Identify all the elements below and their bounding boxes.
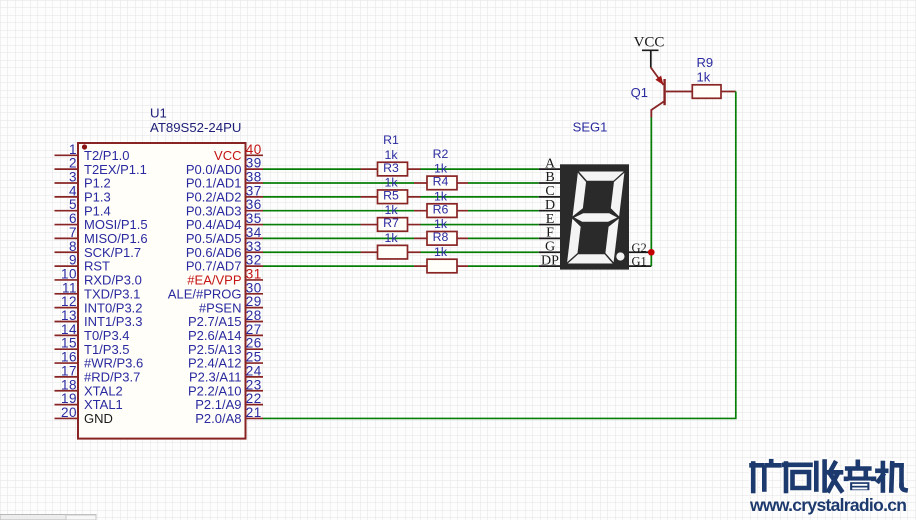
svg-text:ALE/#PROG: ALE/#PROG	[168, 286, 242, 301]
svg-text:1k: 1k	[385, 203, 399, 217]
svg-text:1k: 1k	[434, 245, 448, 259]
svg-text:19: 19	[61, 391, 77, 406]
svg-text:XTAL2: XTAL2	[84, 383, 123, 398]
svg-text:22: 22	[246, 391, 262, 406]
svg-text:XTAL1: XTAL1	[84, 397, 123, 412]
svg-text:14: 14	[61, 322, 77, 337]
svg-text:23: 23	[246, 377, 262, 392]
svg-text:1k: 1k	[434, 217, 448, 231]
svg-text:32: 32	[246, 253, 262, 268]
svg-text:TXD/P3.1: TXD/P3.1	[84, 286, 140, 301]
svg-text:17: 17	[61, 363, 77, 378]
svg-text:4: 4	[69, 183, 77, 198]
svg-text:P2.7/A15: P2.7/A15	[188, 314, 242, 329]
svg-text:1k: 1k	[385, 231, 399, 245]
svg-text:1k: 1k	[434, 189, 448, 203]
svg-text:P2.2/A10: P2.2/A10	[188, 383, 242, 398]
svg-text:P2.1/A9: P2.1/A9	[195, 397, 241, 412]
svg-text:U1: U1	[150, 106, 167, 121]
svg-text:SCK/P1.7: SCK/P1.7	[84, 245, 141, 260]
svg-text:AT89S52-24PU: AT89S52-24PU	[150, 120, 241, 135]
svg-text:G2: G2	[632, 241, 647, 255]
svg-text:21: 21	[246, 405, 262, 420]
svg-text:P0.3/AD3: P0.3/AD3	[186, 203, 242, 218]
svg-text:R4: R4	[433, 175, 449, 189]
svg-text:R7: R7	[383, 216, 399, 230]
svg-text:G1: G1	[632, 255, 647, 269]
svg-text:R9: R9	[697, 55, 714, 70]
svg-text:P2.4/A12: P2.4/A12	[188, 356, 242, 371]
svg-text:1k: 1k	[385, 148, 399, 162]
svg-text:P2.5/A13: P2.5/A13	[188, 342, 242, 357]
svg-text:RST: RST	[84, 259, 110, 274]
svg-text:3: 3	[69, 170, 77, 185]
svg-text:15: 15	[61, 336, 77, 351]
svg-text:R8: R8	[433, 230, 449, 244]
svg-text:13: 13	[61, 308, 77, 323]
svg-text:P0.6/AD6: P0.6/AD6	[186, 245, 242, 260]
svg-text:#EA/VPP: #EA/VPP	[187, 273, 241, 288]
svg-text:P1.3: P1.3	[84, 189, 111, 204]
svg-text:24: 24	[246, 363, 262, 378]
svg-text:MISO/P1.6: MISO/P1.6	[84, 231, 148, 246]
svg-text:P2.6/A14: P2.6/A14	[188, 328, 242, 343]
svg-text:P0.2/AD2: P0.2/AD2	[186, 189, 242, 204]
svg-text:SEG1: SEG1	[573, 120, 608, 135]
svg-text:R6: R6	[433, 202, 449, 216]
svg-text:30: 30	[246, 280, 262, 295]
svg-text:1k: 1k	[385, 176, 399, 190]
svg-text:T1/P3.5: T1/P3.5	[84, 342, 130, 357]
svg-text:34: 34	[246, 225, 262, 240]
svg-text:T2/P1.0: T2/P1.0	[84, 148, 130, 163]
svg-text:1k: 1k	[434, 162, 448, 176]
svg-text:28: 28	[246, 308, 262, 323]
svg-text:39: 39	[246, 156, 262, 171]
svg-text:Q1: Q1	[631, 85, 648, 100]
svg-text:R2: R2	[433, 147, 449, 161]
svg-text:R1: R1	[383, 133, 399, 147]
svg-text:P0.7/AD7: P0.7/AD7	[186, 259, 242, 274]
svg-text:2: 2	[69, 156, 77, 171]
svg-text:R3: R3	[383, 161, 399, 175]
svg-text:12: 12	[61, 294, 77, 309]
svg-text:38: 38	[246, 170, 262, 185]
svg-text:T0/P3.4: T0/P3.4	[84, 328, 130, 343]
svg-text:T2EX/P1.1: T2EX/P1.1	[84, 162, 147, 177]
svg-text:1k: 1k	[697, 70, 711, 85]
svg-text:P1.4: P1.4	[84, 203, 111, 218]
svg-text:9: 9	[69, 253, 77, 268]
svg-text:GND: GND	[84, 411, 113, 426]
svg-text:27: 27	[246, 322, 262, 337]
svg-text:7: 7	[69, 225, 77, 240]
svg-text:#WR/P3.6: #WR/P3.6	[84, 356, 143, 371]
svg-text:37: 37	[246, 183, 262, 198]
svg-text:VCC: VCC	[634, 35, 665, 51]
svg-text:P1.2: P1.2	[84, 176, 111, 191]
svg-text:10: 10	[61, 266, 77, 281]
svg-text:R5: R5	[383, 189, 399, 203]
svg-text:8: 8	[69, 239, 77, 254]
svg-text:31: 31	[246, 266, 262, 281]
svg-text:www.crystalradio.cn: www.crystalradio.cn	[749, 495, 907, 515]
svg-text:35: 35	[246, 211, 262, 226]
svg-text:#RD/P3.7: #RD/P3.7	[84, 370, 140, 385]
svg-text:P0.0/AD0: P0.0/AD0	[186, 162, 242, 177]
svg-text:P0.4/AD4: P0.4/AD4	[186, 217, 242, 232]
svg-text:11: 11	[62, 280, 77, 295]
svg-text:29: 29	[246, 294, 262, 309]
svg-text:40: 40	[246, 142, 262, 157]
svg-text:P2.0/A8: P2.0/A8	[195, 411, 241, 426]
svg-text:18: 18	[61, 377, 77, 392]
svg-text:INT0/P3.2: INT0/P3.2	[84, 300, 143, 315]
svg-text:MOSI/P1.5: MOSI/P1.5	[84, 217, 148, 232]
svg-text:6: 6	[69, 211, 77, 226]
svg-text:P0.5/AD5: P0.5/AD5	[186, 231, 242, 246]
svg-text:VCC: VCC	[214, 148, 241, 163]
svg-text:33: 33	[246, 239, 262, 254]
svg-text:P2.3/A11: P2.3/A11	[189, 370, 242, 385]
svg-text:1: 1	[69, 142, 77, 157]
svg-text:36: 36	[246, 197, 262, 212]
svg-text:26: 26	[246, 336, 262, 351]
svg-text:16: 16	[61, 350, 77, 365]
svg-text:P0.1/AD1: P0.1/AD1	[186, 176, 242, 191]
svg-text:#PSEN: #PSEN	[199, 300, 242, 315]
svg-text:20: 20	[61, 405, 77, 420]
svg-text:25: 25	[246, 350, 262, 365]
svg-text:INT1/P3.3: INT1/P3.3	[84, 314, 143, 329]
svg-text:RXD/P3.0: RXD/P3.0	[84, 273, 142, 288]
svg-text:5: 5	[69, 197, 77, 212]
